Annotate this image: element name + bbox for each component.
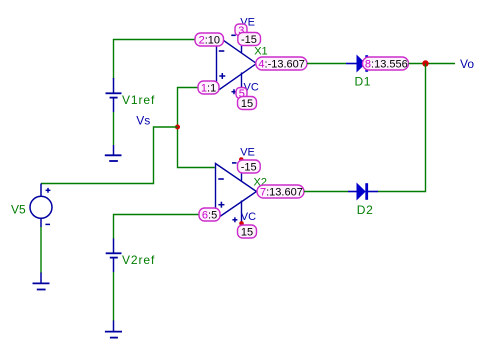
op-amp X1 plus sign — [219, 73, 225, 79]
op-amp X1 — [217, 30, 257, 92]
output bubble 7:13.607 (X2) — [257, 185, 304, 199]
voltage source V1ref — [106, 78, 122, 112]
diode D1 — [357, 55, 368, 72]
wire X2 output to D2 — [304, 191, 348, 193]
pin 5 bubble (X1 VC) — [236, 88, 247, 101]
pin dot (X2 VE) — [239, 157, 244, 162]
svg-text:V2ref: V2ref — [122, 253, 155, 267]
wire Vo junction down to D2 cathode — [378, 64, 426, 192]
svg-text:15: 15 — [241, 227, 253, 239]
ground (V1ref) — [105, 145, 122, 161]
wire V1ref to ground — [113, 112, 115, 145]
svg-text:VC: VC — [241, 211, 256, 223]
svg-text:8:13.556: 8:13.556 — [365, 59, 408, 71]
minus polarity mark VE (X1) — [231, 34, 235, 36]
svg-text:X1: X1 — [254, 45, 267, 57]
svg-text:6:5: 6:5 — [202, 210, 217, 222]
svg-text:2:10: 2:10 — [199, 35, 220, 47]
voltage source V5 — [30, 184, 52, 228]
op-amp X2 — [216, 160, 257, 224]
svg-text:Vo: Vo — [460, 57, 474, 71]
D1 anode stub — [346, 63, 357, 65]
svg-text:-15: -15 — [241, 162, 257, 174]
D2 anode stub — [348, 191, 357, 193]
D2 cathode stub — [368, 191, 378, 193]
ground (V2ref) — [105, 321, 122, 338]
node bubble 8:13.556 (D1 cathode) — [363, 57, 409, 71]
pin 3 bubble (X1 VE) — [235, 24, 247, 37]
minus polarity mark VE (X2) — [232, 162, 237, 164]
svg-text:15: 15 — [241, 98, 253, 110]
diode D2 — [357, 183, 368, 200]
op-amp X2 minus sign — [218, 178, 224, 180]
input bubble 2:10 (X1 inverting) — [195, 33, 224, 47]
wire D1 to Vo — [409, 63, 456, 65]
value bubble -15 (X2 VE) — [238, 160, 261, 174]
plus polarity mark VC (X2) — [232, 217, 237, 222]
pin dot (X2 VC) — [239, 221, 244, 226]
wire 6:5 bubble to V2ref — [114, 215, 200, 240]
wire Vs junction to V5 — [41, 127, 178, 184]
svg-text:D1: D1 — [355, 75, 372, 89]
wire V5 to ground — [40, 227, 42, 273]
wire 1:1 bubble to Vs column down to X2 inverting input — [178, 88, 215, 168]
svg-text:V5: V5 — [11, 202, 26, 216]
value bubble 15 (X2 VC) — [238, 225, 257, 239]
op-amp X1 minus sign — [219, 50, 225, 52]
op-amp X2 plus sign — [218, 202, 224, 208]
wire V1ref top to X1 inverting input bubble — [114, 40, 196, 80]
input bubble 1:1 (X1 non-inverting) — [198, 81, 219, 95]
wire X1 output to D1 — [307, 63, 346, 65]
plus polarity mark VC (X1) — [232, 89, 237, 94]
svg-text:V1ref: V1ref — [122, 93, 155, 107]
svg-text:Vs: Vs — [136, 114, 150, 128]
svg-text:1:1: 1:1 — [201, 83, 216, 95]
svg-text:4:-13.607: 4:-13.607 — [258, 59, 305, 71]
voltage source V2ref — [106, 239, 122, 273]
output bubble 4:-13.607 (X1) — [256, 57, 307, 71]
junction Vs — [175, 125, 180, 130]
svg-text:VE: VE — [240, 146, 255, 158]
svg-text:D2: D2 — [357, 203, 374, 217]
wire V2ref to ground — [113, 272, 115, 321]
value bubble -15 (X1 VE) — [238, 33, 261, 47]
value bubble 15 (X1 VC) — [238, 97, 257, 111]
junction Vo — [422, 60, 428, 66]
ground (V5) — [33, 273, 50, 290]
input bubble 6:5 (X2 non-inverting) — [199, 208, 220, 222]
svg-text:7:13.607: 7:13.607 — [260, 187, 303, 199]
